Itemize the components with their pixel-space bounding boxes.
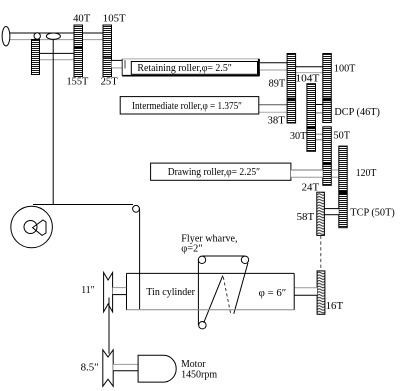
shaft retaining roller to 89T	[260, 63, 287, 70]
belt diagonal left	[204, 276, 223, 323]
drawing roller box	[151, 163, 291, 180]
svg-text:25T: 25T	[101, 76, 119, 87]
flyer top-left pulley	[198, 256, 205, 263]
svg-text:TCP (50T): TCP (50T)	[350, 208, 395, 219]
tin cylinder box	[127, 273, 295, 309]
svg-text:DCP (46T): DCP (46T)	[334, 107, 380, 118]
retaining roller label box	[131, 62, 257, 75]
gear 40T/155T column	[74, 25, 83, 77]
svg-text:104T: 104T	[295, 73, 320, 84]
inner hub circle	[24, 221, 37, 234]
svg-text:Intermediate roller,φ = 1.375″: Intermediate roller,φ = 1.375″	[132, 101, 242, 112]
gear 58T (chevron)	[317, 192, 325, 235]
svg-text:16T: 16T	[326, 301, 344, 312]
intermediate roller box	[120, 97, 259, 114]
svg-text:Retaining roller,φ= 2.5″: Retaining roller,φ= 2.5″	[137, 63, 232, 74]
bearing circle on shaft	[34, 33, 40, 39]
svg-text:30T: 30T	[290, 131, 307, 142]
dashed link 58T-16T	[320, 236, 322, 271]
gear column 100T/DCP	[323, 54, 332, 123]
shaft 11in pulley to tin	[113, 288, 127, 295]
belt line down to tin cylinder	[139, 209, 141, 309]
svg-text:11″: 11″	[81, 285, 94, 296]
svg-text:100T: 100T	[334, 64, 356, 75]
shaft 58T to TCP	[324, 209, 338, 215]
svg-text:155T: 155T	[67, 76, 89, 87]
belt line down from shaft boss	[52, 39, 54, 204]
guide pulley	[133, 205, 140, 212]
mesh line 89T-100T	[296, 66, 323, 68]
belt diagonal dashed	[223, 277, 230, 314]
svg-text:φ=2″: φ=2″	[181, 243, 202, 254]
pulley 11in	[104, 273, 113, 312]
motor pulley circle	[11, 206, 53, 248]
ellipse boss on shaft	[46, 33, 60, 39]
belt diagonal right	[234, 263, 248, 314]
svg-text:38T: 38T	[268, 116, 286, 127]
belt tangent line	[33, 204, 133, 206]
shaft 25T to retaining roller	[112, 60, 123, 68]
gear A (below bearing)	[32, 40, 40, 75]
svg-text:50T: 50T	[334, 131, 351, 142]
svg-text:58T: 58T	[297, 212, 315, 223]
gear column 120T/TCP	[339, 146, 347, 228]
belt line pulley to pulley	[108, 298, 110, 354]
svg-text:Drawing roller,φ= 2.25″: Drawing roller,φ= 2.25″	[168, 167, 260, 178]
gear 105T/25T column	[103, 25, 112, 77]
horn mark	[33, 220, 46, 235]
retaining roller outer box	[122, 59, 259, 76]
svg-text:120T: 120T	[356, 168, 377, 179]
motor body	[138, 355, 176, 382]
svg-text:89T: 89T	[269, 79, 286, 90]
flyer top-right pulley	[241, 256, 248, 263]
svg-text:1450rpm: 1450rpm	[181, 370, 218, 381]
shaft intermediate roller to 38T	[259, 105, 287, 113]
svg-text:40T: 40T	[73, 14, 91, 25]
pulley end ellipse	[2, 27, 10, 46]
flyer bottom pulley	[199, 322, 206, 329]
gear 16T (chevron)	[317, 271, 325, 314]
shaft tin cylinder to 16T	[294, 288, 317, 296]
top main shaft	[10, 33, 107, 40]
30T-50T connector	[316, 134, 323, 140]
gear column 104T/30T	[307, 84, 316, 152]
flyer left belt line	[197, 260, 199, 325]
lines 24T shaft to 120T	[331, 169, 339, 171]
svg-text:8.5″: 8.5″	[81, 362, 99, 373]
gear column 50T/24T	[323, 127, 332, 186]
shaft drawing roller to 24T	[291, 170, 323, 177]
flyer top belt line	[202, 255, 245, 257]
shaft 104T-DCP connector	[316, 105, 323, 113]
pulley 8.5in	[103, 350, 113, 387]
gear column 89T/38T	[287, 54, 296, 124]
svg-text:Motor: Motor	[181, 359, 206, 370]
second shaft	[40, 53, 75, 59]
svg-text:105T: 105T	[103, 14, 126, 25]
shaft 8.5 pulley to motor	[113, 364, 138, 370]
svg-text:φ = 6″: φ = 6″	[259, 288, 287, 299]
svg-text:Tin cylinder: Tin cylinder	[146, 287, 195, 298]
